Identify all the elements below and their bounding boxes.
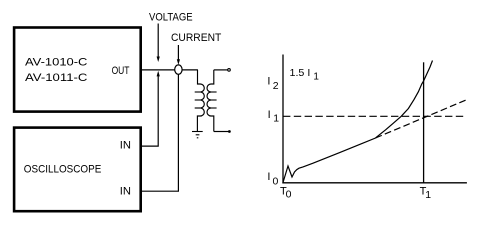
- svg-text:1: 1: [313, 72, 319, 83]
- svg-text:1: 1: [425, 189, 431, 201]
- svg-text:AV-1010-C: AV-1010-C: [25, 57, 87, 69]
- transformer T1 primary winding: [197, 70, 204, 132]
- svg-text:IN: IN: [120, 186, 131, 198]
- svg-text:0: 0: [286, 189, 292, 201]
- graph y-axis: [282, 55, 284, 184]
- current probe arrow (down): [177, 45, 179, 60]
- wire OUT to transformer: [141, 69, 198, 71]
- secondary top lead wire: [214, 69, 228, 71]
- svg-text:I: I: [267, 171, 270, 183]
- svg-text:OUT: OUT: [112, 65, 130, 77]
- wire voltage sense to scope IN: [141, 74, 158, 146]
- voltage sense arrow (up, below wire): [157, 71, 160, 77]
- oscilloscope box: [14, 128, 141, 212]
- svg-text:1: 1: [273, 113, 279, 125]
- current probe circle: [175, 65, 182, 74]
- dashed level line I1: [283, 115, 467, 117]
- svg-text:2: 2: [273, 80, 279, 92]
- transformer T1 secondary winding: [207, 70, 214, 132]
- svg-text:OSCILLOSCOPE: OSCILLOSCOPE: [24, 164, 102, 176]
- svg-text:I: I: [267, 76, 270, 88]
- terminal dot (top, open): [228, 69, 231, 72]
- svg-text:IN: IN: [120, 139, 131, 151]
- terminal dot (bottom, filled): [228, 130, 231, 133]
- secondary bottom lead wire: [214, 131, 229, 133]
- svg-text:VOLTAGE: VOLTAGE: [149, 12, 193, 24]
- svg-text:1.5 I: 1.5 I: [290, 67, 311, 79]
- svg-text:0: 0: [273, 176, 279, 188]
- secondary winding ticks: [211, 91, 217, 93]
- vertical line at T1: [423, 62, 425, 183]
- svg-text:CURRENT: CURRENT: [171, 32, 222, 44]
- voltage probe arrow (down): [157, 24, 159, 58]
- current waveform curve: [283, 61, 433, 183]
- primary winding ticks: [195, 91, 201, 93]
- svg-text:AV-1011-C: AV-1011-C: [25, 72, 87, 84]
- pulse generator box U1 (AV-1010-C / AV-1011-C): [14, 28, 141, 112]
- dashed tangent (linear extrapolation) line: [376, 99, 468, 138]
- svg-text:I: I: [268, 109, 271, 121]
- graph x-axis: [282, 182, 467, 184]
- wire current sense to scope IN: [141, 74, 178, 191]
- ground: [192, 131, 203, 133]
